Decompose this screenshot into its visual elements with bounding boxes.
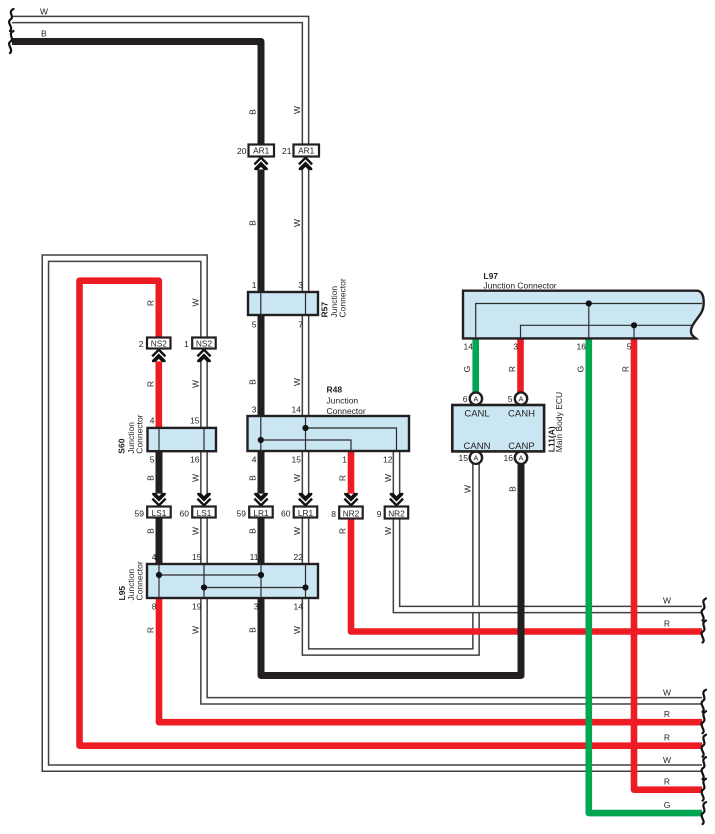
svg-text:1: 1 bbox=[252, 280, 257, 290]
svg-text:A: A bbox=[518, 453, 523, 462]
svg-text:R: R bbox=[664, 619, 670, 629]
svg-text:3: 3 bbox=[513, 342, 518, 352]
svg-text:LS1: LS1 bbox=[197, 508, 212, 518]
chevron down above LS1-59 bbox=[150, 493, 168, 506]
svg-text:Connector: Connector bbox=[327, 406, 366, 416]
squiggle right R 745.7 bbox=[702, 735, 706, 757]
connector box LS1 pin59 bbox=[147, 507, 171, 518]
node L95 4-11 junction right bbox=[258, 572, 264, 578]
svg-text:Junction: Junction bbox=[327, 396, 359, 406]
wire G L97 pin16 exits right bbox=[589, 338, 702, 813]
svg-text:59: 59 bbox=[135, 509, 145, 519]
svg-text:Connector: Connector bbox=[337, 278, 347, 317]
squiggle right G 813.1 bbox=[702, 802, 706, 824]
svg-text:1: 1 bbox=[342, 455, 347, 465]
pin 15 circle A (CANN) bbox=[470, 452, 482, 464]
WIRES-GREEN bbox=[476, 338, 702, 813]
connector box AR1 pin21 bbox=[294, 145, 320, 157]
svg-text:W: W bbox=[191, 626, 201, 634]
squiggle right W 609.5 bbox=[702, 599, 706, 621]
connector box NS2 pin1 bbox=[192, 338, 216, 349]
svg-text:Connector: Connector bbox=[135, 414, 145, 453]
svg-text:14: 14 bbox=[292, 405, 302, 415]
svg-text:B: B bbox=[248, 528, 258, 534]
svg-text:W: W bbox=[663, 688, 671, 698]
svg-text:3: 3 bbox=[252, 405, 257, 415]
node R48 pin15-pin12 junction bbox=[302, 425, 308, 431]
svg-text:Connector: Connector bbox=[135, 561, 145, 600]
svg-text:R: R bbox=[664, 709, 670, 719]
svg-text:CANN: CANN bbox=[464, 441, 491, 452]
svg-text:W: W bbox=[191, 527, 201, 535]
svg-text:R: R bbox=[664, 777, 670, 787]
svg-text:5: 5 bbox=[627, 342, 632, 352]
wire R L97 pin3 to CANH circle bbox=[517, 338, 524, 392]
svg-text:W: W bbox=[292, 378, 302, 386]
wire B S60 pin5 to LS1-59 bbox=[156, 451, 163, 507]
junction connector L97 with torn right edge bbox=[463, 291, 704, 339]
svg-text:59: 59 bbox=[237, 509, 247, 519]
svg-text:B: B bbox=[248, 475, 258, 481]
svg-text:B: B bbox=[41, 29, 47, 39]
wire W L95 pin14 to CANN circle bbox=[306, 464, 477, 652]
svg-text:W: W bbox=[191, 474, 201, 482]
squiggle right R 631.5 bbox=[702, 621, 706, 643]
connector box LR1 pin59 bbox=[249, 507, 273, 518]
wire R L97 pin5 exits right bbox=[634, 338, 702, 789]
pin 5 circle A (CANH) bbox=[515, 392, 527, 404]
junction connector L95 bbox=[147, 564, 318, 598]
WIRES-BLACK bbox=[12, 42, 521, 676]
svg-text:L97: L97 bbox=[483, 271, 498, 281]
chevron down above LR1-60 bbox=[297, 493, 315, 506]
svg-text:9: 9 bbox=[377, 509, 382, 519]
svg-text:LR1: LR1 bbox=[253, 508, 269, 518]
node R48 pin4-pin1 junction bbox=[258, 437, 264, 443]
wire B R57 pin5 to R48 pin3 bbox=[258, 315, 265, 416]
svg-text:14: 14 bbox=[294, 602, 304, 612]
svg-text:6: 6 bbox=[463, 394, 468, 404]
squiggle right W 768.1 bbox=[702, 757, 706, 779]
svg-text:W: W bbox=[191, 380, 201, 388]
svg-text:R: R bbox=[507, 366, 517, 372]
svg-text:B: B bbox=[248, 220, 258, 226]
wire W NS2-1 to S60 pin15 bbox=[200, 349, 208, 428]
svg-text:W: W bbox=[292, 527, 302, 535]
wire R wrap: NS2-2 up, around left side, exits right bbox=[80, 281, 703, 746]
svg-text:7: 7 bbox=[298, 320, 303, 330]
wire W R48 pin12 to NR2-9 bbox=[393, 451, 401, 507]
svg-text:15: 15 bbox=[459, 453, 469, 463]
connector box LS1 pin60 bbox=[192, 507, 216, 518]
svg-text:4: 4 bbox=[152, 552, 157, 562]
svg-text:W: W bbox=[292, 474, 302, 482]
svg-text:G: G bbox=[462, 366, 472, 373]
pin 16 circle A (CANP) bbox=[515, 452, 527, 464]
svg-text:CANL: CANL bbox=[464, 409, 489, 420]
wire R NR2-8 exits right bbox=[351, 518, 702, 632]
wire R L95 pin8 exits right bbox=[159, 598, 702, 722]
svg-text:R: R bbox=[664, 733, 670, 743]
svg-text:AR1: AR1 bbox=[298, 146, 315, 156]
svg-text:4: 4 bbox=[150, 416, 155, 426]
svg-text:Main Body ECU: Main Body ECU bbox=[554, 392, 564, 452]
svg-text:5: 5 bbox=[508, 394, 513, 404]
svg-text:W: W bbox=[463, 485, 473, 493]
svg-text:16: 16 bbox=[504, 453, 514, 463]
svg-text:5: 5 bbox=[252, 320, 257, 330]
connector box NR2 pin8 bbox=[339, 507, 363, 519]
svg-text:W: W bbox=[383, 474, 393, 482]
svg-text:B: B bbox=[508, 486, 518, 492]
chevron down above NR2-9 bbox=[388, 493, 406, 506]
wire W top-left to AR1-21 (column D upper) bbox=[12, 20, 306, 145]
wire W NR2-9 exits right bbox=[397, 518, 703, 610]
svg-text:15: 15 bbox=[190, 416, 200, 426]
svg-text:B: B bbox=[248, 379, 258, 385]
svg-text:Junction Connector: Junction Connector bbox=[483, 281, 556, 291]
chevron up below NS2-1 bbox=[195, 349, 213, 362]
svg-text:21: 21 bbox=[282, 146, 292, 156]
svg-text:19: 19 bbox=[192, 602, 202, 612]
svg-text:G: G bbox=[664, 800, 671, 810]
svg-text:R: R bbox=[145, 300, 155, 306]
svg-text:LR1: LR1 bbox=[298, 508, 314, 518]
wire R R48 pin1 to NR2-8 bbox=[348, 451, 355, 507]
chevron down above NR2-8 bbox=[342, 493, 360, 506]
svg-text:R: R bbox=[146, 627, 156, 633]
svg-text:CANH: CANH bbox=[508, 409, 535, 420]
svg-text:5: 5 bbox=[150, 455, 155, 465]
svg-text:AR1: AR1 bbox=[253, 146, 270, 156]
svg-text:11: 11 bbox=[250, 552, 259, 562]
svg-text:B: B bbox=[248, 627, 258, 633]
svg-text:60: 60 bbox=[180, 509, 190, 519]
svg-text:B: B bbox=[146, 475, 156, 481]
node L97 pin3-pin5 junction bbox=[631, 322, 637, 328]
svg-text:B: B bbox=[248, 109, 258, 115]
svg-text:CANP: CANP bbox=[508, 441, 534, 452]
svg-text:W: W bbox=[292, 626, 302, 634]
svg-text:60: 60 bbox=[281, 509, 291, 519]
ECU L11(A) Main Body ECU box bbox=[452, 405, 544, 451]
wire W R48 pin15 to LR1-60 bbox=[302, 451, 310, 507]
svg-text:R48: R48 bbox=[327, 385, 343, 395]
wire B R48 pin4 to LR1-59 bbox=[258, 451, 265, 507]
node L95 15-22 junction left bbox=[201, 584, 207, 590]
svg-text:16: 16 bbox=[190, 455, 200, 465]
svg-text:S60: S60 bbox=[117, 438, 127, 453]
connector box NR2 pin9 bbox=[385, 507, 409, 519]
wire G L97 pin14 to CANL circle bbox=[472, 338, 479, 392]
svg-text:R: R bbox=[338, 528, 348, 534]
chevron up below AR1-21 bbox=[297, 157, 315, 170]
svg-text:NS2: NS2 bbox=[196, 339, 213, 349]
wire W S60 pin16 to LS1-60 bbox=[200, 451, 208, 507]
svg-text:W: W bbox=[292, 106, 302, 114]
node L95 4-11 junction left bbox=[156, 572, 162, 578]
connector box AR1 pin20 bbox=[249, 145, 275, 157]
wire W R57 pin7 to R48 pin14 bbox=[302, 315, 310, 416]
node L97 pin14-pin16 junction bbox=[586, 300, 592, 306]
svg-text:R: R bbox=[621, 366, 631, 372]
svg-text:16: 16 bbox=[577, 342, 587, 352]
svg-text:3: 3 bbox=[298, 280, 303, 290]
svg-text:W: W bbox=[40, 7, 48, 17]
squiggle right W 700.8 bbox=[702, 690, 706, 712]
svg-text:1: 1 bbox=[184, 339, 189, 349]
chevron up below AR1-20 bbox=[252, 157, 270, 170]
junction connector R57 bbox=[248, 292, 318, 315]
svg-text:W: W bbox=[663, 755, 671, 765]
svg-text:8: 8 bbox=[152, 602, 157, 612]
wire B LR1-59 to L95 pin11 bbox=[258, 518, 265, 565]
svg-text:LS1: LS1 bbox=[152, 508, 167, 518]
svg-text:NS2: NS2 bbox=[151, 339, 168, 349]
svg-text:R: R bbox=[145, 381, 155, 387]
svg-text:W: W bbox=[383, 527, 393, 535]
svg-text:A: A bbox=[518, 394, 523, 403]
node L95 15-22 junction right bbox=[302, 584, 308, 590]
BOXES bbox=[147, 145, 704, 599]
svg-text:14: 14 bbox=[464, 342, 474, 352]
svg-text:W: W bbox=[292, 219, 302, 227]
svg-text:G: G bbox=[575, 366, 585, 373]
wire B top-left to AR1-20 (column C upper) bbox=[12, 42, 261, 145]
svg-text:12: 12 bbox=[383, 455, 393, 465]
svg-text:2: 2 bbox=[139, 339, 144, 349]
chevron up below NS2-2 bbox=[150, 349, 168, 362]
wire W wrap: NS2-1 up, around left side, exits right bbox=[45, 258, 702, 768]
svg-text:8: 8 bbox=[331, 509, 336, 519]
svg-text:15: 15 bbox=[292, 455, 302, 465]
svg-text:A: A bbox=[473, 453, 478, 462]
squiggle right R 722.2 bbox=[702, 711, 706, 733]
squiggle left W bbox=[9, 9, 13, 31]
svg-text:A: A bbox=[473, 394, 478, 403]
svg-text:15: 15 bbox=[192, 552, 202, 562]
wire W LR1-60 to L95 pin22 bbox=[302, 518, 310, 565]
squiggle right R 789.7 bbox=[702, 779, 706, 801]
junction connector R48 bbox=[248, 416, 410, 451]
WIRES-RED bbox=[80, 281, 703, 790]
svg-text:4: 4 bbox=[252, 455, 257, 465]
wire B AR1-20 to R57 pin1 bbox=[258, 157, 265, 293]
wire B LS1-59 to L95 pin4 bbox=[156, 518, 163, 565]
chevron down above LS1-60 bbox=[195, 493, 213, 506]
wire B L95 pin3 to CANP circle bbox=[261, 464, 521, 676]
connector box LR1 pin60 bbox=[294, 507, 318, 518]
svg-text:20: 20 bbox=[237, 146, 247, 156]
svg-text:NR2: NR2 bbox=[343, 509, 360, 519]
wire W AR1-21 to R57 pin3 bbox=[302, 157, 310, 293]
wire W LS1-60 to L95 pin15 bbox=[200, 518, 208, 565]
wire W L95 pin19 exits right bbox=[204, 598, 702, 701]
connector box NS2 pin2 bbox=[147, 338, 171, 349]
chevron down above LR1-59 bbox=[252, 493, 270, 506]
svg-text:W: W bbox=[191, 298, 201, 306]
wire R NS2-2 to S60 pin4 bbox=[156, 349, 163, 428]
junction connector S60 bbox=[148, 428, 217, 451]
svg-text:W: W bbox=[663, 596, 671, 606]
svg-text:22: 22 bbox=[294, 552, 304, 562]
squiggle left B bbox=[9, 31, 13, 53]
svg-text:R: R bbox=[338, 475, 348, 481]
svg-text:3: 3 bbox=[254, 602, 259, 612]
pin 6 circle A (CANL) bbox=[470, 392, 482, 404]
svg-text:NR2: NR2 bbox=[388, 509, 405, 519]
svg-text:B: B bbox=[146, 528, 156, 534]
